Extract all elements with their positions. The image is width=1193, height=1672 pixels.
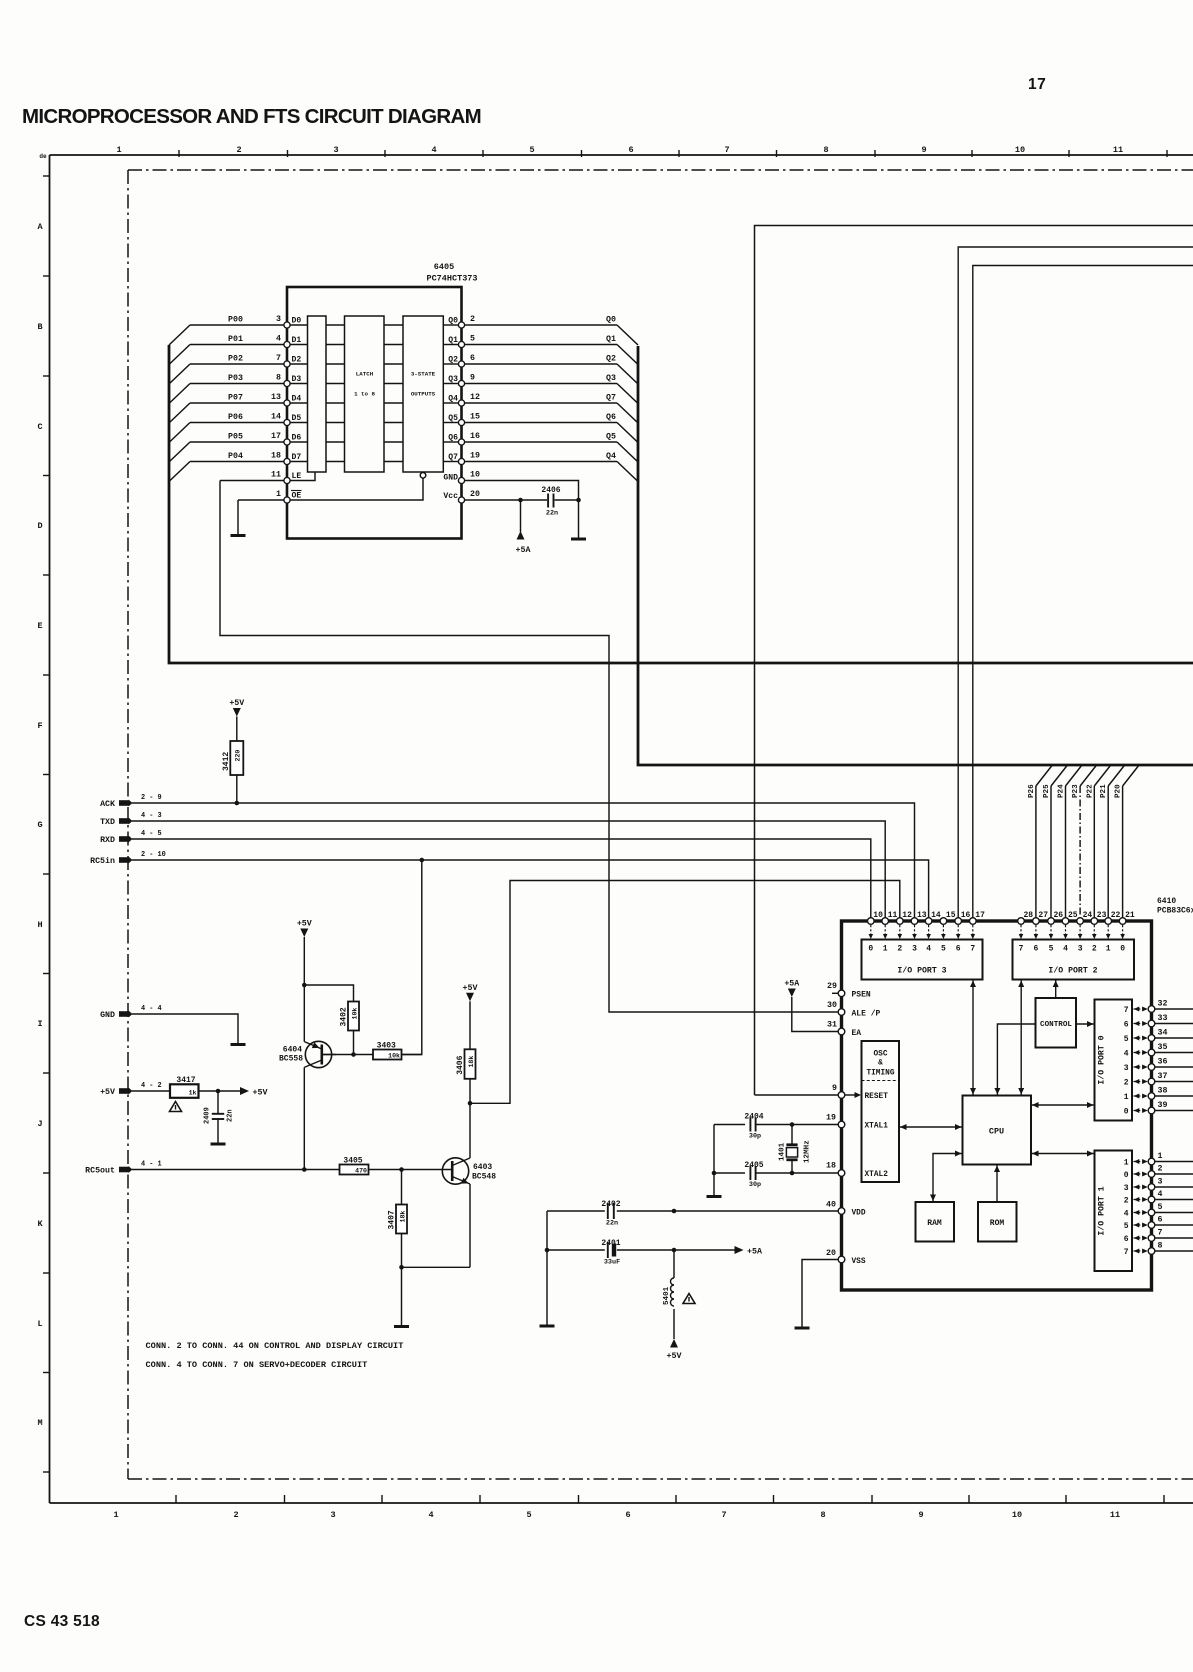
wire Q5 from latch to Q-bus	[465, 422, 618, 424]
svg-text:I: I	[37, 1019, 42, 1029]
svg-text:H: H	[37, 920, 42, 930]
connector RC5in 2 - 10	[119, 857, 130, 863]
svg-text:470: 470	[355, 1168, 367, 1175]
connector GND 4-4	[119, 1011, 130, 1017]
Q6404 emitter (to +5V)	[303, 985, 305, 1042]
svg-text:1: 1	[276, 490, 281, 499]
uP pin 26 (port2 bit 5)	[1048, 918, 1055, 925]
wire/arrow +5A (VDD)	[674, 1249, 735, 1251]
junction +5A on Vcc	[518, 498, 523, 503]
svg-text:10: 10	[1012, 1510, 1022, 1520]
svg-text:Q6: Q6	[606, 413, 616, 422]
svg-text:5: 5	[941, 945, 946, 954]
svg-text:CONN. 2 TO CONN. 44 ON CONTROL: CONN. 2 TO CONN. 44 ON CONTROL AND DISPL…	[146, 1341, 404, 1351]
svg-text:P25: P25	[1043, 784, 1051, 798]
latch internal LATCH 1 to 8 block	[345, 316, 385, 472]
svg-text:6: 6	[1033, 945, 1038, 954]
wire to +5A supply	[520, 500, 522, 532]
svg-text:3406: 3406	[456, 1055, 465, 1074]
wire P22	[1093, 786, 1095, 918]
latch pin 9 Q3	[458, 380, 464, 386]
svg-text:34: 34	[1158, 1029, 1168, 1038]
latch pin 12 Q4	[458, 400, 464, 406]
svg-text:22: 22	[1111, 911, 1121, 920]
svg-text:8: 8	[1158, 1242, 1163, 1251]
svg-text:+5A: +5A	[516, 546, 531, 555]
svg-text:24: 24	[1083, 911, 1093, 920]
ground (xtal caps)	[713, 1125, 715, 1196]
svg-text:3412: 3412	[222, 752, 231, 771]
wire ACK to uP port3	[132, 803, 915, 918]
svg-text:10k: 10k	[388, 1053, 400, 1060]
capacitor C2404 30p	[714, 1124, 745, 1126]
svg-text:3-STATE: 3-STATE	[411, 371, 436, 378]
uP pin 21 (port2 bit 0)	[1119, 918, 1126, 925]
uP pin 15 (port3 bit 5)	[940, 918, 947, 925]
ROM block	[978, 1202, 1017, 1242]
svg-text:4: 4	[926, 945, 931, 954]
svg-text:I/O PORT 1: I/O PORT 1	[1097, 1186, 1107, 1235]
svg-text:D4: D4	[292, 395, 302, 404]
svg-text:Q3: Q3	[606, 374, 616, 383]
svg-text:4: 4	[276, 335, 281, 344]
svg-text:TIMING: TIMING	[866, 1070, 894, 1078]
wire port2 to CPU (bidirectional)	[1020, 980, 1022, 1096]
wire Q2 from latch to Q-bus	[465, 363, 618, 365]
svg-text:ROM: ROM	[990, 1219, 1005, 1228]
I/O PORT 1 block	[1095, 1151, 1133, 1272]
ground (latch supply)	[571, 538, 586, 541]
svg-text:PCB83C6x: PCB83C6x	[1157, 907, 1193, 916]
junction R3412/ACK	[235, 801, 240, 806]
svg-text:4: 4	[1158, 1190, 1163, 1199]
LE wire to internal register	[290, 472, 315, 481]
svg-text:2 - 9: 2 - 9	[141, 794, 162, 802]
svg-text:MICROPROCESSOR AND FTS CIRCUIT: MICROPROCESSOR AND FTS CIRCUIT DIAGRAM	[22, 105, 481, 128]
svg-text:2 - 10: 2 - 10	[141, 851, 166, 859]
junction +5V rail	[216, 1089, 221, 1094]
svg-text:9: 9	[470, 374, 475, 383]
svg-text:A: A	[37, 222, 43, 232]
latch pin 6 Q2	[458, 361, 464, 367]
svg-text:30: 30	[827, 1001, 837, 1010]
svg-text:3417: 3417	[176, 1076, 195, 1085]
svg-text:22n: 22n	[546, 510, 558, 518]
warning triangle (L3417)	[170, 1102, 182, 1112]
svg-text:3: 3	[912, 945, 917, 954]
latch pin 10 GND	[458, 477, 464, 483]
wire RESET from pin to corner	[755, 1094, 839, 1096]
junction GND/Vcc ground rail	[576, 498, 581, 503]
svg-text:C: C	[37, 422, 42, 432]
junction collector 6404 / RC5out	[302, 1167, 307, 1172]
svg-text:13: 13	[271, 393, 281, 402]
svg-text:+5V: +5V	[667, 1352, 682, 1361]
uP pin 12 (port3 bit 2)	[897, 918, 904, 925]
capacitor C2406 22n	[547, 494, 549, 508]
wire CPU to port1 (bidirectional)	[1031, 1153, 1095, 1155]
latch internal latch-enable register	[308, 316, 327, 472]
wire P05 to latch D6	[190, 441, 284, 443]
latch data row D4 internal wires	[290, 402, 308, 404]
junction crystal/XTAL2	[790, 1171, 795, 1176]
uP pin 30 ALE/P	[838, 1009, 845, 1016]
connector RXD 4 - 5	[119, 836, 130, 842]
svg-text:21: 21	[1125, 911, 1135, 920]
svg-text:20: 20	[470, 490, 480, 499]
svg-text:P06: P06	[228, 413, 243, 422]
svg-text:22n: 22n	[227, 1109, 235, 1122]
svg-text:ALE /P: ALE /P	[852, 1010, 881, 1019]
svg-text:5401: 5401	[663, 1286, 671, 1305]
wire latch Vcc pin	[465, 499, 548, 501]
svg-text:7: 7	[970, 945, 975, 954]
svg-text:P20: P20	[1115, 784, 1123, 798]
svg-text:P01: P01	[228, 335, 243, 344]
svg-text:16: 16	[470, 432, 480, 441]
junction C2405/ground rail	[712, 1171, 717, 1176]
svg-text:6: 6	[628, 145, 633, 155]
wire port3 pin16 to off-page	[958, 247, 1193, 918]
RAM block	[916, 1202, 955, 1242]
wire CPU to RAM	[933, 1154, 963, 1203]
wire OSC to CPU (XTAL clock)	[899, 1126, 963, 1128]
svg-text:18k: 18k	[399, 1211, 406, 1223]
svg-text:6: 6	[625, 1510, 630, 1520]
svg-text:11: 11	[1113, 145, 1123, 155]
transistor Q6403 BC548	[442, 1158, 468, 1184]
svg-text:CS 43 518: CS 43 518	[24, 1613, 100, 1630]
svg-text:P07: P07	[228, 394, 243, 403]
svg-text:E: E	[37, 621, 42, 631]
uP pin 11 (port3 bit 1)	[882, 918, 889, 925]
I/O PORT 3 box	[862, 940, 983, 980]
svg-text:Q1: Q1	[606, 335, 616, 344]
capacitor C2409 22n	[217, 1091, 219, 1113]
uP pin 16 (port3 bit 6)	[955, 918, 962, 925]
svg-text:8: 8	[276, 374, 281, 383]
svg-text:4 - 2: 4 - 2	[141, 1082, 162, 1090]
svg-text:5: 5	[526, 1510, 531, 1520]
wire RC5in to uP port3	[132, 860, 929, 918]
svg-text:9: 9	[921, 145, 926, 155]
capacitor C2402 22n	[547, 1210, 605, 1212]
svg-text:2: 2	[1124, 1197, 1129, 1206]
svg-text:I/O PORT 3: I/O PORT 3	[897, 966, 946, 976]
svg-text:14: 14	[271, 413, 281, 422]
Q6403 collector wire	[469, 1103, 471, 1158]
svg-text:9: 9	[832, 1084, 837, 1093]
latch data row D0 internal wires	[290, 324, 308, 326]
svg-text:P24: P24	[1058, 784, 1066, 798]
svg-text:+5V: +5V	[463, 984, 478, 993]
svg-text:Q0: Q0	[606, 316, 616, 325]
wire RC5in to base resistor R3403	[402, 860, 422, 1055]
svg-text:CONTROL: CONTROL	[1040, 1021, 1072, 1029]
resistor R3402 10k	[348, 1002, 359, 1031]
svg-text:L: L	[37, 1319, 42, 1329]
svg-text:BC548: BC548	[472, 1173, 496, 1182]
svg-text:2: 2	[1092, 945, 1097, 954]
svg-text:7: 7	[1158, 1229, 1163, 1238]
wire latch GND pin	[465, 481, 579, 538]
svg-text:1: 1	[1124, 1159, 1129, 1168]
svg-text:0: 0	[868, 945, 873, 954]
warning triangle (L5401)	[683, 1294, 695, 1304]
connector ACK 2 - 9	[119, 800, 130, 806]
junction RC5in tap	[420, 858, 425, 863]
svg-text:RAM: RAM	[927, 1219, 942, 1228]
svg-text:3: 3	[1124, 1064, 1129, 1073]
svg-text:12: 12	[902, 911, 912, 920]
svg-text:2409: 2409	[204, 1107, 212, 1124]
svg-text:4: 4	[1063, 945, 1068, 954]
svg-text:Q2: Q2	[606, 355, 616, 364]
svg-text:LATCH: LATCH	[356, 371, 374, 378]
svg-text:39: 39	[1158, 1101, 1168, 1110]
svg-text:BC558: BC558	[279, 1055, 303, 1064]
svg-text:5: 5	[1158, 1203, 1163, 1212]
svg-text:1: 1	[113, 1510, 118, 1520]
wire Q3 from latch to Q-bus	[465, 383, 618, 385]
svg-text:18: 18	[271, 452, 281, 461]
ground (VSS)	[795, 1327, 810, 1330]
wire ROM to CPU	[996, 1165, 998, 1203]
svg-text:6: 6	[1124, 1021, 1129, 1030]
wire Q6 from latch to Q-bus	[465, 441, 618, 443]
latch data row D2 internal wires	[290, 363, 308, 365]
svg-text:35: 35	[1158, 1043, 1168, 1052]
svg-text:TXD: TXD	[100, 818, 115, 827]
svg-text:3: 3	[1124, 1184, 1129, 1193]
svg-text:B: B	[37, 322, 42, 332]
svg-text:ACK: ACK	[100, 800, 115, 809]
svg-text:11: 11	[271, 471, 281, 480]
svg-text:D: D	[37, 521, 42, 531]
left P-bus (thick)	[169, 345, 1193, 663]
latch data row D6 internal wires	[290, 441, 308, 443]
emitter to ground rail	[402, 1266, 471, 1268]
svg-text:CPU: CPU	[989, 1127, 1004, 1137]
wire CPU to port0 (bidirectional)	[1031, 1104, 1095, 1106]
svg-text:22n: 22n	[606, 1220, 618, 1228]
inductor L5401	[673, 1250, 675, 1278]
svg-text:11: 11	[1110, 1510, 1120, 1520]
resistor R3405 470	[369, 1169, 453, 1171]
svg-text:18: 18	[826, 1162, 836, 1171]
uP pin 13 (port3 bit 3)	[911, 918, 918, 925]
left rail to ground	[546, 1211, 548, 1325]
svg-text:2: 2	[470, 315, 475, 324]
wire P23	[1079, 786, 1081, 918]
svg-text:1: 1	[1124, 1093, 1129, 1102]
svg-text:D3: D3	[292, 375, 302, 384]
svg-text:XTAL2: XTAL2	[865, 1171, 889, 1179]
supply +5V (L5401)	[670, 1339, 678, 1348]
svg-text:2: 2	[1124, 1079, 1129, 1088]
I/O PORT 2 box	[1013, 940, 1135, 980]
CPU block	[963, 1096, 1032, 1165]
svg-text:10k: 10k	[351, 1008, 358, 1020]
latch pin 19 Q7	[458, 458, 464, 464]
svg-text:Q1: Q1	[448, 336, 458, 345]
resistor R3406 18k	[465, 1049, 476, 1079]
svg-text:4 - 4: 4 - 4	[141, 1005, 162, 1013]
svg-text:1k: 1k	[189, 1090, 197, 1097]
ferrite bead L3417	[170, 1084, 199, 1098]
connector TXD 4 - 3	[119, 818, 130, 824]
wire P24	[1065, 786, 1067, 918]
svg-text:6: 6	[1124, 1235, 1129, 1244]
junction R3406/collector	[468, 1101, 473, 1106]
svg-text:220: 220	[235, 750, 242, 762]
svg-text:7: 7	[276, 354, 281, 363]
svg-text:11: 11	[888, 911, 898, 920]
uP pin 40 VDD	[838, 1208, 845, 1215]
svg-text:38: 38	[1158, 1087, 1168, 1096]
wire Q7 from latch to Q-bus	[465, 461, 618, 463]
svg-text:RXD: RXD	[100, 836, 115, 845]
svg-text:3403: 3403	[377, 1042, 396, 1051]
svg-text:2404: 2404	[744, 1113, 763, 1122]
svg-text:5: 5	[1124, 1035, 1129, 1044]
uP pin 25 (port2 bit 4)	[1062, 918, 1069, 925]
svg-text:5: 5	[1124, 1222, 1129, 1231]
svg-text:6: 6	[470, 354, 475, 363]
capacitor C2401 33uF electrolytic	[547, 1249, 605, 1251]
wire P06 to latch D5	[190, 422, 284, 424]
svg-text:3: 3	[333, 145, 338, 155]
wire P20	[1122, 786, 1124, 918]
junction R3402/base	[351, 1052, 356, 1057]
wire P07 to latch D4	[190, 402, 284, 404]
dash-dot boundary bottom	[128, 1478, 1193, 1480]
svg-text:GND: GND	[443, 474, 458, 483]
svg-text:&: &	[878, 1060, 883, 1068]
wire to R3402	[304, 985, 353, 1002]
svg-text:2405: 2405	[744, 1161, 763, 1170]
svg-text:9: 9	[918, 1510, 923, 1520]
svg-text:M: M	[37, 1418, 42, 1428]
svg-text:P23: P23	[1072, 784, 1080, 798]
wire GND to ground	[132, 1014, 238, 1043]
svg-text:3407: 3407	[388, 1210, 397, 1229]
wire CONTROL to CPU	[997, 1024, 1035, 1096]
svg-text:CONN. 4 TO CONN. 7 ON SERVO+DE: CONN. 4 TO CONN. 7 ON SERVO+DECODER CIRC…	[146, 1360, 368, 1370]
svg-text:Q7: Q7	[606, 394, 616, 403]
svg-text:12MHz: 12MHz	[804, 1140, 812, 1163]
ground (C2401/C2402)	[540, 1325, 555, 1328]
svg-text:+5V: +5V	[229, 699, 244, 708]
uP pin 27 (port2 bit 6)	[1033, 918, 1040, 925]
svg-text:OSC: OSC	[873, 1051, 887, 1059]
uP pin 31 EA with +5A	[838, 1028, 845, 1035]
uP pin 29 PSEN	[832, 992, 838, 994]
connector RC5out 4-1	[119, 1167, 130, 1173]
svg-text:+5V: +5V	[297, 920, 312, 929]
svg-text:8: 8	[823, 145, 828, 155]
svg-text:XTAL1: XTAL1	[865, 1123, 889, 1131]
svg-text:Q4: Q4	[606, 452, 616, 461]
svg-text:26: 26	[1054, 911, 1064, 920]
junction L5401	[672, 1248, 677, 1253]
svg-text:40: 40	[826, 1201, 836, 1210]
transistor Q6404 BC558	[305, 1041, 331, 1067]
junction crystal/XTAL1	[790, 1122, 795, 1127]
wire collector 6403 to uP port3 pin 12	[471, 881, 900, 1104]
svg-text:17: 17	[975, 911, 985, 920]
svg-text:P22: P22	[1086, 784, 1094, 798]
ground (C2409)	[211, 1143, 226, 1146]
uP pin 24 (port2 bit 3)	[1077, 918, 1084, 925]
OSC & TIMING block	[862, 1041, 900, 1182]
svg-text:3: 3	[276, 315, 281, 324]
svg-text:30p: 30p	[749, 1181, 761, 1189]
svg-text:1: 1	[116, 145, 121, 155]
uP pin 22 (port2 bit 1)	[1105, 918, 1112, 925]
uP pin 14 (port3 bit 4)	[925, 918, 932, 925]
svg-text:P04: P04	[228, 452, 243, 461]
svg-text:33uF: 33uF	[604, 1259, 620, 1267]
svg-text:3: 3	[330, 1510, 335, 1520]
svg-text:30p: 30p	[749, 1133, 761, 1141]
supply +5V (R3412)	[233, 708, 241, 717]
svg-text:1401: 1401	[779, 1142, 787, 1161]
svg-text:36: 36	[1158, 1058, 1168, 1067]
svg-text:VDD: VDD	[852, 1210, 866, 1218]
svg-text:8: 8	[820, 1510, 825, 1520]
wire Q0 from latch to Q-bus	[465, 324, 618, 326]
wire OE to ground	[238, 499, 284, 501]
svg-text:F: F	[37, 721, 42, 731]
svg-text:20: 20	[826, 1249, 836, 1258]
svg-text:Q6: Q6	[448, 434, 458, 443]
svg-text:0: 0	[1120, 945, 1125, 954]
dash-dot boundary top	[128, 169, 1193, 171]
wire P03 to latch D3	[190, 383, 284, 385]
right Q-bus (thick)	[638, 346, 1193, 765]
I/O PORT 0 block	[1095, 1000, 1133, 1121]
svg-text:OE: OE	[292, 492, 302, 501]
svg-text:4 - 3: 4 - 3	[141, 812, 162, 820]
supply +5A (latch)	[517, 531, 525, 540]
latch data row D5 internal wires	[290, 422, 308, 424]
svg-text:2: 2	[236, 145, 241, 155]
latch pin 2 Q0	[458, 322, 464, 328]
svg-text:2: 2	[1158, 1165, 1163, 1174]
svg-text:10: 10	[1015, 145, 1025, 155]
junction base/R3407	[399, 1167, 404, 1172]
junction left rail	[545, 1248, 550, 1253]
svg-text:15: 15	[470, 413, 480, 422]
Q6404 collector	[304, 1060, 322, 1067]
svg-text:D0: D0	[292, 317, 302, 326]
svg-text:Q5: Q5	[448, 414, 458, 423]
wire RXD to uP port3	[132, 839, 871, 918]
junction emitter/R3402	[302, 983, 307, 988]
supply +5V (Q6404 emitter)	[300, 929, 308, 938]
wire CONTROL to port0	[1076, 1023, 1095, 1025]
svg-text:de: de	[39, 153, 47, 160]
svg-text:1: 1	[1106, 945, 1111, 954]
svg-text:6: 6	[956, 945, 961, 954]
svg-text:I/O PORT 0: I/O PORT 0	[1097, 1035, 1107, 1084]
svg-text:7: 7	[1124, 1248, 1129, 1257]
svg-text:28: 28	[1024, 911, 1034, 920]
supply +5V (R3406)	[466, 993, 474, 1002]
wire TXD to uP port3	[132, 821, 885, 918]
svg-text:4 - 1: 4 - 1	[141, 1161, 162, 1169]
